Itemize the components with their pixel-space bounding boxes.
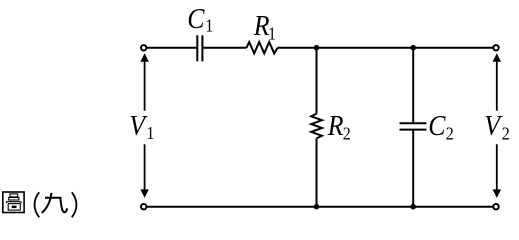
svg-text:1: 1 [268,23,276,43]
label C2 [428,110,454,144]
wire R2 branch upper [316,48,318,114]
capacitor C2 [400,123,427,129]
source arrow V1 [140,53,149,198]
wire C2 branch upper [412,48,414,124]
terminal bottom-left [141,204,146,209]
figure caption 圖(九) [3,192,77,217]
label R2 [327,110,351,144]
wire C2 branch lower [412,130,414,207]
paren right [72,192,77,217]
source arrow V2 [493,53,502,198]
terminal bottom-right [493,204,498,209]
node bottom R2 [314,204,320,210]
paren left [35,192,40,217]
char tu bottom hui outer [8,204,20,211]
char tu second mouth [9,198,19,201]
svg-text:2: 2 [446,124,454,144]
label C1 [187,3,213,36]
char jiu stroke bend-hook [45,198,67,213]
svg-text:1: 1 [205,16,213,36]
wire R2 branch lower [316,138,318,206]
char tu middle horizontal [6,202,21,203]
wire C1 to R1 [202,47,246,49]
terminal top-right [493,45,498,50]
char tu outer box [3,192,24,213]
label V1 [129,109,154,143]
resistor R1 [247,42,278,53]
wire terminal top-left to C1 [147,47,198,49]
wire R1 to terminal top-right [278,47,494,49]
svg-text:2: 2 [502,124,510,144]
svg-text:2: 2 [343,124,351,144]
char tu top small mouth [10,194,18,197]
label R1 [253,10,276,44]
capacitor C1 [197,35,202,61]
node top R2 [314,45,320,51]
node bottom C2 [410,204,416,210]
node top C2 [410,45,416,51]
svg-text:C: C [428,110,446,142]
char tu bottom hui inner [12,206,17,209]
resistor R2 [311,114,322,139]
svg-text:1: 1 [146,123,154,143]
svg-text:C: C [187,3,205,35]
label V2 [484,110,509,144]
wire bottom [147,206,494,208]
char jiu stroke pie [42,193,52,213]
terminal top-left [141,45,146,50]
svg-text:R: R [327,110,344,142]
